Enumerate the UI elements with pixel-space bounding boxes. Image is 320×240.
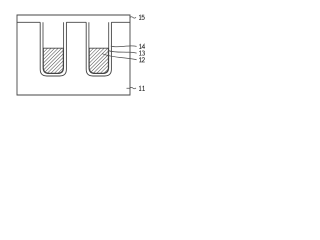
top layer 15 bottom boundary (center mesa) xyxy=(66,21,86,23)
trench 1 fill 12 (hatched) xyxy=(43,48,63,73)
trench 2 liner 13 inner boundary xyxy=(89,22,109,73)
trench 2 outer wall xyxy=(86,22,111,76)
label 13 xyxy=(139,51,144,55)
trench 1 outer wall xyxy=(40,22,66,76)
leader to label 12 xyxy=(102,54,136,60)
label 15 xyxy=(139,15,144,19)
substrate 11 outline xyxy=(17,15,130,95)
label 11 xyxy=(139,86,145,90)
leader to label 15 xyxy=(130,17,136,18)
top layer 15 bottom boundary (right mesa) xyxy=(111,21,130,23)
label 14 xyxy=(139,44,145,48)
label 12 xyxy=(139,58,145,62)
trench 1 liner 13 inner boundary xyxy=(43,22,64,73)
top layer 15 bottom boundary (left mesa) xyxy=(17,21,40,23)
leader to label 13 xyxy=(109,51,137,54)
leader to label 14 xyxy=(111,45,137,48)
leader to label 11 xyxy=(127,87,137,88)
trench 2 fill 12 (hatched) xyxy=(89,48,108,73)
